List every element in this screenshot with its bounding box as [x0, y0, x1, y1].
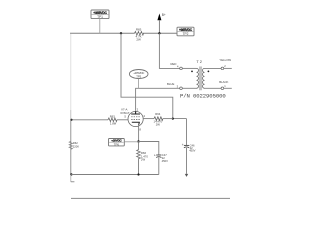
- svg-text:+: +: [154, 153, 156, 157]
- svg-text:B+: B+: [162, 13, 166, 17]
- terminal circle YELLOW: [221, 67, 224, 70]
- envelope: [128, 111, 143, 126]
- svg-text:BLACK: BLACK: [219, 80, 228, 84]
- wire BLUE terminal to primary: [182, 87, 196, 89]
- primary winding: [197, 68, 199, 88]
- terminal circle RED: [180, 67, 183, 70]
- resistor R64: [154, 117, 163, 121]
- transformer T2: [191, 59, 209, 90]
- svg-text:R63: R63: [110, 114, 116, 118]
- svg-text:TP6: TP6: [114, 142, 120, 146]
- ground arrow: [185, 174, 188, 177]
- wire screen resistor right: [163, 118, 173, 120]
- svg-text:P/N 0022905000: P/N 0022905000: [180, 93, 226, 100]
- resistor R65 on rail: [135, 31, 144, 35]
- junction dot cathode: [137, 140, 139, 142]
- capacitor C46: [182, 143, 196, 152]
- junction dot rail x121: [120, 32, 122, 34]
- tick mark: [71, 181, 75, 183]
- left bus faint upper: [70, 34, 72, 110]
- svg-text:T2: T2: [196, 59, 202, 64]
- wire RED terminal to primary: [182, 67, 196, 69]
- wire top B+ rail left segment: [70, 32, 135, 34]
- svg-text:TP5: TP5: [136, 74, 141, 78]
- resistor R63: [108, 118, 117, 122]
- svg-text:YELLOW: YELLOW: [219, 58, 231, 62]
- svg-text:2W: 2W: [136, 38, 141, 42]
- wire resistor to tube pin5: [117, 119, 128, 121]
- bottom bus: [71, 197, 230, 199]
- svg-text:1.8M: 1.8M: [110, 121, 117, 125]
- svg-text:2W: 2W: [156, 123, 161, 127]
- svg-text:450V: 450V: [189, 149, 195, 153]
- resistor R66 cathode: [137, 142, 141, 175]
- svg-text:TP1: TP1: [97, 15, 103, 19]
- test point box TP1: [91, 10, 109, 19]
- wire YELLOW lead: [224, 67, 232, 69]
- wire cap to ground: [186, 148, 188, 174]
- wire screen bypass branch down: [186, 119, 188, 145]
- core lines: [198, 67, 200, 91]
- junction dot screen node: [172, 118, 174, 120]
- svg-text:TP2: TP2: [183, 32, 189, 36]
- junction dot cathode bottom: [137, 173, 139, 175]
- wire cathode to cap branch: [139, 142, 159, 155]
- wire cap down: [158, 157, 160, 174]
- wire TP1 stem: [99, 19, 101, 34]
- oval stamp test point TP5: [129, 70, 148, 79]
- polarity dot secondary: [208, 71, 210, 73]
- resistor R62 on left bus: [69, 141, 72, 149]
- B+ power arrow: [157, 13, 166, 33]
- wire TP6 to cathode: [124, 141, 138, 143]
- left bus lower: [70, 120, 72, 175]
- svg-text:R64: R64: [155, 112, 161, 116]
- test point box TP2: [177, 27, 194, 36]
- polarity dot primary: [191, 71, 193, 73]
- test point box TP6: [109, 139, 125, 147]
- grid 2 dashes: [131, 119, 140, 121]
- svg-text:+: +: [182, 143, 184, 147]
- left bus fading segment: [70, 110, 72, 120]
- junction dot rail x159: [158, 32, 160, 34]
- wire cathode stem: [138, 125, 140, 142]
- grid 1 dashes: [131, 116, 140, 118]
- wire stamp stem: [138, 79, 140, 89]
- capacitor C47: [154, 153, 168, 163]
- tube V7-A: [120, 108, 145, 132]
- wire secondary top to YELLOW: [205, 67, 222, 69]
- wire bottom link: [71, 174, 159, 176]
- svg-text:2W: 2W: [141, 157, 146, 161]
- cathode: [132, 122, 140, 125]
- wire B+ to transformer RED: [159, 33, 179, 68]
- plate: [131, 111, 140, 114]
- wire BLACK lead: [224, 87, 232, 89]
- secondary winding: [203, 68, 205, 88]
- svg-text:R65: R65: [136, 28, 142, 32]
- wire screen feed: down from rail, right, down, right: [121, 33, 187, 118]
- wire screen resistor left: [143, 118, 154, 120]
- svg-text:BLUE: BLUE: [167, 82, 174, 86]
- stub below left junction: [70, 175, 72, 182]
- wire top B+ rail right segment: [143, 32, 177, 34]
- svg-text:450V: 450V: [162, 159, 168, 163]
- svg-text:220K: 220K: [73, 145, 79, 149]
- junction dot bottom left: [70, 173, 72, 175]
- wire plate riser and to BLUE: [136, 88, 180, 111]
- svg-text:R62: R62: [73, 141, 78, 145]
- wire grid line: [71, 119, 108, 121]
- terminal circle BLACK: [221, 87, 224, 90]
- wire secondary bottom to BLACK: [205, 87, 222, 89]
- terminal circle BLUE: [180, 87, 183, 90]
- junction dot grid: [70, 119, 72, 121]
- svg-text:RED: RED: [171, 62, 177, 66]
